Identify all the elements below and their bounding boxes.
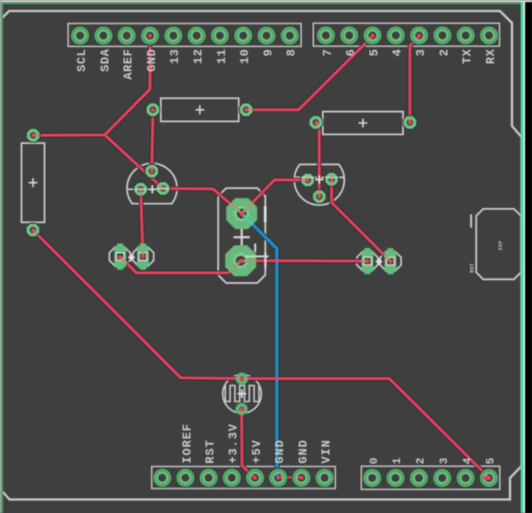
LDR R4 silk circle + serpentine: [223, 375, 262, 414]
wire C1 top pad to Q2 left pad: [242, 180, 308, 214]
wire blend on Q1 pads: [141, 166, 169, 195]
svg-text:4: 4: [391, 49, 405, 57]
svg-text:5: 5: [486, 457, 498, 464]
node pin3 JP2: [417, 34, 421, 38]
svg-text:4: 4: [462, 457, 474, 464]
header box JP4 (analog): [361, 466, 500, 489]
wire halos (dark edging): [33, 36, 489, 477]
svg-text:IOREF: IOREF: [180, 423, 194, 464]
white sliver left edge: [0, 2, 1, 513]
wire blend on R2 pads: [316, 117, 410, 125]
wire blend on R3 pads: [33, 135, 39, 234]
transistor Q2 pads: [301, 173, 315, 187]
transistor Q1 pads: [145, 164, 159, 178]
svg-text:6: 6: [344, 49, 358, 57]
wire LED1 left pad to C1 bottom pad: [120, 257, 241, 273]
wire blend on C1 top pad (red entries): [231, 203, 253, 214]
transistor Q1 outline (TO-92, flat bottom): [127, 163, 177, 203]
node pin5 JP2: [371, 34, 375, 38]
wire R3 bottom pad through LDR top pad to JP4 pin 5: [33, 230, 489, 478]
svg-text:ISP: ISP: [498, 241, 504, 251]
wire JP2 pin 3 to R2 right pad: [410, 36, 419, 122]
header JP3 pads power row: [153, 468, 335, 487]
svg-text:SDA: SDA: [98, 48, 112, 72]
svg-text:9: 9: [261, 49, 275, 57]
node LDR holes: [240, 377, 244, 381]
wire LDR bottom pad to JP3 +5V: [242, 409, 255, 477]
svg-text:RST: RST: [469, 263, 475, 273]
black strip right: [525, 2, 532, 513]
svg-text:0: 0: [369, 457, 381, 464]
wire GND pad JP1 down-left to R3 top pad: [33, 40, 150, 135]
node LED1 holes: [118, 255, 122, 259]
svg-text:+5V: +5V: [250, 439, 264, 463]
white line right: [523, 2, 525, 513]
svg-text:TX: TX: [461, 48, 475, 64]
header JP1 pads SCL..8: [71, 26, 300, 45]
wire R2 left pad to Q2 bottom pad: [316, 122, 319, 196]
wire R1 left pad to Q1 top pad: [152, 110, 153, 171]
wire blend on C1 top pad (blue exit): [242, 214, 253, 225]
wire R1 right pad to JP2 pin 5: [246, 36, 372, 110]
svg-text:3: 3: [414, 49, 428, 57]
wire red stub into JP4 pin5 pad: [483, 476, 489, 479]
wire blend on LED2 pads: [362, 255, 391, 261]
wire Q2 right pad to LED2 right pad: [332, 179, 391, 261]
wire blend on LDR pads: [236, 379, 247, 415]
LDR R4 pads: [238, 374, 247, 383]
node R1 pads: [151, 108, 155, 112]
svg-text:3: 3: [439, 457, 451, 464]
capacitor C1 outline (central electrolytic): [218, 188, 265, 283]
green board edge right (bright): [521, 2, 524, 513]
svg-text:RX: RX: [484, 48, 498, 64]
LED1 pads: [114, 244, 126, 270]
header JP2 pads 7..RX: [316, 26, 498, 45]
LDR plus mark: [238, 389, 247, 398]
green board edge left: [1, 2, 3, 513]
svg-text:11: 11: [215, 49, 229, 65]
capacitor C1 minus mark: [264, 206, 267, 222]
node C1 holes: [240, 212, 245, 217]
svg-text:12: 12: [192, 49, 206, 65]
wire JP3 GND to GND jumper: [277, 476, 300, 479]
capacitor C1 center cross: [234, 229, 250, 245]
wire C1 bottom pad to LED2 left pad: [241, 259, 368, 262]
node R2 pads: [314, 121, 318, 125]
resistor R2 body: [320, 112, 407, 135]
node +5V JP3: [253, 476, 257, 480]
node GND JP1: [148, 34, 152, 38]
header box JP3 (power): [152, 467, 336, 489]
wire blend on Q2 pads: [302, 179, 331, 196]
svg-text:GND: GND: [273, 439, 287, 463]
svg-text:AREF: AREF: [122, 49, 136, 80]
capacitor C1 pads: [226, 198, 257, 229]
node R3 pads: [31, 133, 35, 137]
resistor R1 body: [157, 98, 242, 121]
top light strip: [0, 0, 532, 2]
LED2 silk octagons (right 2-pad part): [357, 251, 401, 271]
LED2 pads: [362, 248, 374, 274]
svg-text:13: 13: [168, 49, 182, 65]
svg-text:GND: GND: [145, 49, 159, 72]
Q2 chord over pads: [302, 176, 338, 178]
svg-text:RST: RST: [204, 439, 218, 463]
green board edge top: [0, 2, 523, 4]
svg-text:5: 5: [367, 49, 381, 57]
wire bottom copper: C1 top pad to JP3 GND: [242, 214, 278, 477]
svg-text:2: 2: [437, 49, 451, 57]
node GND JP3: [276, 476, 280, 480]
ISP connector outline: [471, 209, 521, 279]
node Q1 pads: [150, 169, 154, 173]
wire blend on LED1 pads: [120, 249, 143, 263]
svg-text:1: 1: [392, 457, 404, 464]
node A5 JP4: [487, 476, 491, 480]
wire blend on R1 right pad: [246, 109, 253, 112]
wire junction to Q1 collector pad: [105, 135, 163, 189]
header JP4 pads analog 0..5: [363, 468, 499, 487]
Q1 chord over pads: [134, 188, 169, 191]
capacitor C1 plus mark near bottom pad: [246, 244, 269, 269]
node LED2 holes: [365, 259, 369, 263]
wire Q1 left pad down to LED1 right pad: [141, 189, 143, 256]
node GND2 JP3: [299, 476, 303, 480]
LED2 plus mark: [376, 258, 383, 265]
wire blend on C1 bottom pad: [231, 261, 256, 271]
resistor R2 pads: [309, 115, 323, 129]
wire Q1 right pad to C1 top pad: [163, 189, 242, 214]
svg-text:2: 2: [416, 457, 428, 464]
svg-text:+3.3V: +3.3V: [227, 423, 241, 464]
resistor R3 body (vertical, left): [22, 140, 45, 226]
svg-text:10: 10: [238, 49, 252, 65]
svg-text:8: 8: [285, 49, 299, 57]
node Q2 pads: [306, 178, 310, 182]
svg-text:7: 7: [321, 49, 335, 57]
Q2 center cross: [315, 175, 323, 183]
LED1 plus mark: [128, 254, 135, 261]
transistor Q2 outline (TO-92, flat top): [294, 164, 344, 205]
Q1 center cross: [148, 185, 156, 193]
header box JP2 (digital 0-7): [313, 23, 499, 46]
resistor R1 pads: [146, 103, 160, 117]
svg-text:SCL: SCL: [75, 49, 89, 72]
svg-text:VIN: VIN: [320, 439, 334, 463]
LED1 silk octagons (left 2-pad part): [109, 247, 153, 267]
header box JP1 (digital 8-13): [68, 24, 301, 47]
resistor R3 pads: [26, 128, 40, 142]
svg-text:GND: GND: [296, 439, 310, 463]
